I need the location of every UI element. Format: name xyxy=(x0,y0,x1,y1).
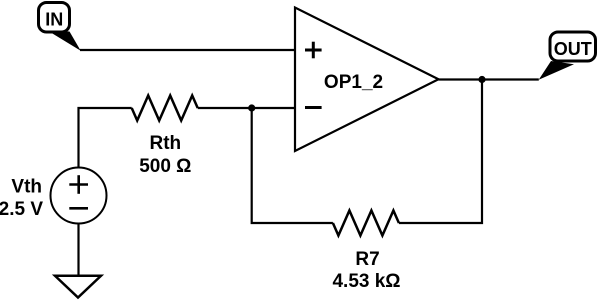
net flag OUT xyxy=(539,32,596,80)
value 4.53 kΩ xyxy=(332,271,400,292)
voltage source - symbol xyxy=(69,207,88,210)
junction node at inverting input xyxy=(248,104,255,111)
resistor Rth xyxy=(132,96,198,121)
junction node at output xyxy=(478,76,485,83)
voltage source Vth circle xyxy=(51,168,107,224)
svg-text:OP1_2: OP1_2 xyxy=(324,72,383,93)
ground xyxy=(55,276,101,298)
svg-text:2.5 V: 2.5 V xyxy=(0,199,43,220)
wire IN flag to op-amp + input xyxy=(80,49,295,51)
voltage source + symbol xyxy=(69,175,88,194)
svg-text:IN: IN xyxy=(45,10,63,30)
svg-text:R7: R7 xyxy=(355,249,379,270)
label OP1_2 xyxy=(324,72,383,93)
resistor R7 xyxy=(333,211,399,236)
op-amp U1 OP1_2 triangle xyxy=(295,8,439,152)
wire Rth to op-amp - input xyxy=(198,107,295,109)
value 500 Ω xyxy=(139,156,191,177)
svg-text:500 Ω: 500 Ω xyxy=(139,156,191,177)
wire Vth bottom to ground xyxy=(77,224,79,277)
label Vth xyxy=(11,177,42,198)
svg-text:OUT: OUT xyxy=(554,39,592,59)
label Rth xyxy=(149,133,181,154)
op-amp - input symbol xyxy=(305,106,322,109)
svg-text:Rth: Rth xyxy=(149,133,181,154)
label R7 xyxy=(355,249,379,270)
wire feedback left: junction down and across to R7 xyxy=(252,108,333,223)
net flag IN xyxy=(39,3,81,51)
svg-text:Vth: Vth xyxy=(11,177,42,198)
op-amp + input symbol xyxy=(305,42,322,59)
wire op-amp output to OUT flag xyxy=(439,78,539,80)
wire Vth top to Rth (node rail y=108) xyxy=(79,108,132,168)
value 2.5 V xyxy=(0,199,43,220)
wire feedback right: R7 up to output node xyxy=(399,80,482,224)
svg-text:4.53 kΩ: 4.53 kΩ xyxy=(332,271,400,292)
